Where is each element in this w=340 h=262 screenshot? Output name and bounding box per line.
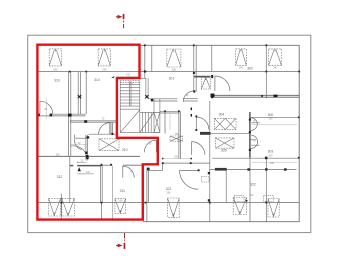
shaft box with X [154, 112, 160, 132]
entrance door [144, 140, 156, 152]
stairwell [120, 78, 160, 133]
svg-text:200: 200 [269, 154, 274, 157]
furniture dashed boxes [99, 78, 273, 202]
dark thick bars [200, 132, 211, 135]
d7 room 302 [215, 76, 230, 91]
svg-text:240: 240 [102, 69, 107, 72]
svg-text:305: 305 [221, 149, 227, 153]
svg-text:311: 311 [120, 189, 126, 193]
furniture box room 300 upper [214, 118, 236, 129]
bottom band symbols [49, 198, 280, 218]
window room 312 left [49, 198, 61, 216]
d13 [192, 142, 205, 155]
window room 302 bottom [268, 199, 279, 218]
svg-text:301: 301 [169, 77, 175, 81]
window room 302 [236, 49, 247, 66]
svg-text:240: 240 [273, 67, 278, 70]
corridor C double wall [70, 120, 117, 122]
svg-text:306: 306 [175, 133, 180, 136]
svg-text:265: 265 [56, 153, 61, 156]
right column rooms [250, 116, 299, 118]
wc box right [264, 196, 274, 202]
d8 bath door [183, 91, 194, 102]
door room 321 [180, 170, 199, 189]
d2 corridor door [110, 122, 111, 134]
furniture box room 306 [170, 136, 183, 141]
window room 301 [167, 49, 181, 67]
svg-text:280: 280 [270, 162, 275, 165]
window room 321 [168, 198, 180, 217]
window room 322 [233, 198, 246, 215]
window room 303 [269, 49, 282, 66]
thick walls [70, 77, 299, 166]
d5 room 311 [123, 166, 135, 178]
faint dimension lines [46, 77, 297, 163]
room labels [54, 67, 273, 193]
window room 311 [115, 199, 126, 214]
svg-text:240: 240 [239, 67, 244, 70]
shaft box corridor 310 [99, 139, 119, 151]
corridor double wall right [148, 98, 177, 100]
svg-text:303: 303 [268, 150, 274, 154]
wall under 311/321 rooms [102, 164, 112, 166]
svg-text:310: 310 [54, 78, 60, 82]
svg-text:302: 302 [247, 67, 253, 71]
svg-text:140: 140 [118, 200, 123, 203]
wc box left [234, 196, 244, 202]
window room 312 right [62, 198, 75, 216]
black marks [38, 70, 278, 171]
section marker top [116, 14, 124, 28]
dimension line small, entrance [77, 161, 94, 174]
svg-text:302: 302 [249, 194, 254, 197]
svg-text:288: 288 [172, 68, 177, 71]
doors [40, 76, 260, 189]
wall E [37, 155, 140, 157]
drawing frame [28, 35, 311, 232]
bottom band partitions [60, 194, 62, 220]
window room 310 [49, 49, 61, 66]
svg-text:322: 322 [250, 183, 256, 187]
svg-text:AN: AN [129, 83, 133, 86]
dimension smudges [44, 67, 277, 203]
wc box room 322 [202, 177, 210, 183]
svg-text:240: 240 [53, 69, 58, 72]
section marker bottom [116, 233, 125, 249]
furniture box room 305 [215, 138, 234, 148]
svg-text:200: 200 [167, 192, 172, 195]
window room 314 [98, 49, 110, 66]
wall D [74, 137, 86, 139]
interior walls thin [37, 45, 299, 221]
svg-text:312: 312 [57, 175, 63, 179]
d11 [196, 117, 209, 130]
walls right of stairs [160, 110, 179, 112]
flight 2 [140, 111, 160, 113]
vestibule wall [85, 135, 87, 161]
d12 semicircle doors [251, 118, 260, 131]
red apartment outline [37, 45, 157, 220]
d4 [71, 146, 86, 153]
svg-text:130: 130 [86, 171, 91, 174]
line A full width [37, 71, 299, 73]
window niche room 301 bath [201, 78, 210, 90]
top room partitions [68, 72, 70, 157]
d3 [75, 139, 82, 150]
d1 room 312 upper door [40, 101, 53, 114]
svg-text:321: 321 [166, 187, 172, 191]
svg-text:180: 180 [174, 155, 179, 158]
svg-text:310: 310 [122, 148, 128, 152]
building outline right part [140, 45, 300, 221]
svg-text:200: 200 [269, 118, 274, 121]
windows top band [49, 49, 281, 67]
svg-text:300: 300 [268, 113, 274, 117]
svg-text:415: 415 [126, 74, 131, 77]
svg-text:314: 314 [94, 78, 100, 82]
svg-text:304: 304 [219, 113, 225, 117]
corridor B double wall [37, 113, 85, 115]
